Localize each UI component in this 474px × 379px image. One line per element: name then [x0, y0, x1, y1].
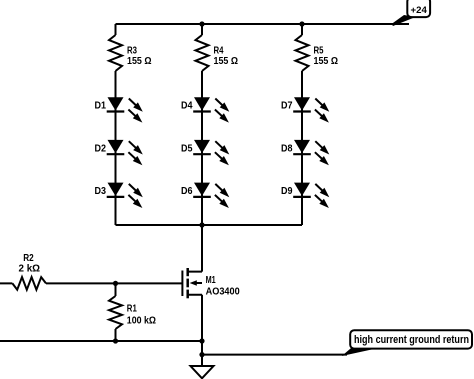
svg-text:D7: D7 [281, 100, 293, 112]
svg-text:D2: D2 [95, 142, 107, 154]
svg-text:2 kΩ: 2 kΩ [19, 263, 41, 275]
svg-text:M1: M1 [206, 274, 216, 286]
svg-text:D6: D6 [181, 185, 193, 197]
svg-text:AO3400: AO3400 [206, 285, 240, 297]
svg-text:155 Ω: 155 Ω [214, 55, 239, 67]
svg-text:D5: D5 [181, 142, 193, 154]
svg-text:+24: +24 [411, 5, 428, 16]
svg-text:D8: D8 [281, 142, 293, 154]
svg-text:D9: D9 [281, 185, 293, 197]
svg-text:155 Ω: 155 Ω [127, 55, 152, 67]
svg-text:high current ground return: high current ground return [354, 334, 469, 346]
svg-text:100 kΩ: 100 kΩ [127, 314, 156, 326]
svg-text:D3: D3 [95, 185, 107, 197]
svg-text:D4: D4 [181, 100, 193, 112]
svg-text:D1: D1 [95, 100, 107, 112]
svg-text:155 Ω: 155 Ω [314, 55, 339, 67]
svg-text:R1: R1 [127, 302, 137, 314]
